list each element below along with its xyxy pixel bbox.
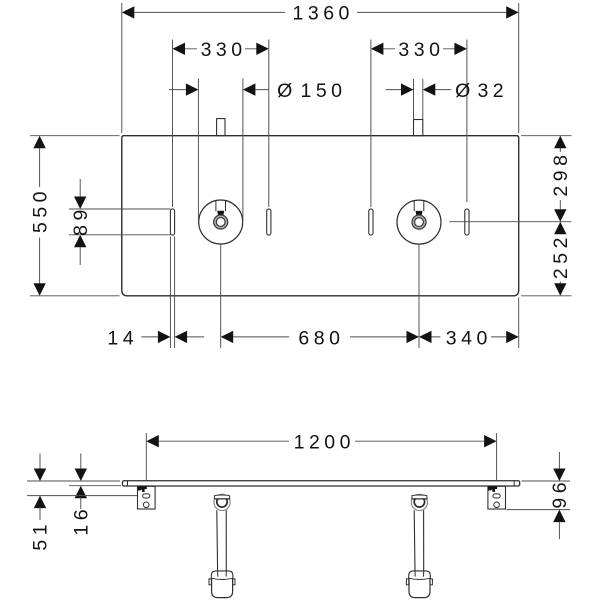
fixing slot 3 [369,209,373,235]
right trap pipe end inside cup [415,571,424,577]
right trap cup body [409,579,430,598]
svg-text:680: 680 [298,327,344,349]
svg-text:96: 96 [549,478,571,509]
dim 1200 extension lines [146,433,496,481]
svg-text:298: 298 [550,151,572,197]
dim Ø32 extension lines [414,79,423,120]
svg-text:14: 14 [107,327,138,349]
washbasin plate outline [122,136,519,296]
dim 51 line [39,454,41,521]
svg-text:330: 330 [398,39,444,61]
dim 550 arrows [33,136,45,296]
fixing slot 1 [170,209,174,235]
svg-text:1200: 1200 [294,431,355,453]
dim Ø150 extension lines [198,79,243,221]
dim 89 tails [79,179,81,265]
left trap wall flange inner ring [217,497,227,507]
faucet hole circle 2 [397,200,441,244]
dim 340 arrows [419,331,519,343]
keyhole channel of hole 1 [216,201,226,211]
dim 16 arrows [75,469,87,499]
right trap wall flange inner ring [414,497,424,507]
right trap cup collar [409,571,431,579]
svg-text:51: 51 [30,520,52,551]
dim 330 left line [185,48,257,50]
right extension lines of 96 [507,481,571,510]
right trap pipe [414,510,424,571]
dim 1360 line [134,11,506,13]
right bracket clamp [488,486,497,492]
left trap cup body [212,579,233,598]
plate end tick left [127,481,129,486]
dim 14 tails [141,336,204,338]
dim 1360 arrows [122,6,519,18]
svg-text:Ø: Ø [455,80,475,102]
dim 680 line [233,336,406,338]
svg-text:1360: 1360 [293,3,354,25]
dim 252 line [559,282,561,284]
faucet hole circle 1 [199,200,243,244]
right trap side tab right [430,579,432,585]
right trap wall flange outer ring [411,494,427,510]
svg-text:550: 550 [29,187,51,233]
svg-text:150: 150 [300,80,346,102]
left extension lines of 51 and 16 [27,481,138,496]
screw notch of hole 1 [217,211,224,215]
svg-text:89: 89 [70,205,92,236]
dim 330 right extension lines [371,40,467,208]
plate end tick right [513,481,515,486]
dim 550 line [39,148,41,283]
dim 330 right arrows [371,43,467,55]
dim 16 line [80,454,82,510]
svg-text:340: 340 [446,327,492,349]
left bracket round hole [143,502,149,508]
dim 340 line [432,336,507,338]
right trap cup collar seam [409,578,431,579]
svg-text:Ø: Ø [277,80,297,102]
left trap side tab right [233,579,235,585]
left trap side tab left [209,579,211,585]
left trap flange cap bar [214,495,229,499]
fixing slot 2 [267,209,271,235]
dim 298 line [559,148,561,209]
dim 680 extension lines [221,244,419,348]
left bracket slot hole [143,494,150,498]
screw notch of hole 2 [416,211,423,215]
left trap cup collar seam [211,578,233,579]
svg-text:32: 32 [477,80,508,102]
dim 330 right line [383,48,454,50]
console plate front view [123,481,520,486]
left trap pipe [217,510,227,571]
left bracket clamp [138,486,147,492]
dim 89 extension lines [69,209,170,235]
svg-text:16: 16 [70,505,92,536]
right trap side tab left [406,579,408,585]
right bracket [488,486,506,509]
dim 96 line [558,452,560,539]
svg-text:252: 252 [550,233,572,279]
dim 96 arrows [553,469,565,523]
mounting tab 1 [217,119,225,136]
dim 1200 line [159,440,484,442]
tap ring of hole 1 [214,215,228,229]
dim 298 arrows [554,136,566,222]
dim 330 left extension lines [173,40,269,208]
dim Ø32 tails [386,89,452,91]
dim 89 arrows [74,197,86,248]
dim 1200 arrows [146,435,496,447]
dim 14 extension lines [170,237,174,349]
left trap wall flange outer ring [214,494,230,510]
tap ring of hole 2 [412,215,426,229]
svg-text:330: 330 [201,39,247,61]
dim 1360 extension lines [122,3,519,133]
left trap cup collar [211,571,233,579]
fixing slot 4 [465,209,469,235]
dim Ø32 arrows [401,83,435,95]
dim 680 arrows [221,331,419,343]
right extension lines top edge / centerline / bottom edge [449,136,571,296]
dim 330 left arrows [173,43,269,55]
right bracket slot hole [493,494,500,498]
dim Ø150 tails [169,89,268,91]
left trap pipe end inside cup [218,571,227,577]
dim Ø150 arrows [186,83,256,95]
dim 340 extension line [518,298,520,349]
dim 14 arrows [158,331,187,343]
right bracket round hole [494,502,500,508]
left bracket [138,486,156,509]
right trap flange cap bar [412,495,427,499]
keyhole channel of hole 2 [414,201,424,211]
dim 252 arrows [554,222,566,296]
mounting tab 2 [414,120,423,136]
dim 550 extension lines [30,136,120,296]
dim 51 arrows [34,469,46,509]
